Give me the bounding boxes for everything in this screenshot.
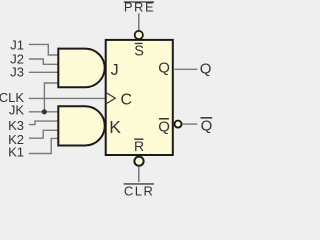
svg-text:R: R [134,138,144,154]
svg-text:JK: JK [9,103,25,118]
svg-text:Q: Q [158,60,170,77]
svg-text:J3: J3 [10,65,24,80]
svg-text:Q: Q [200,60,212,77]
svg-text:K3: K3 [8,118,24,133]
svg-text:K1: K1 [8,144,24,159]
svg-text:Q: Q [158,118,170,135]
svg-text:C: C [121,92,133,109]
svg-text:J: J [111,62,119,79]
svg-text:S: S [134,44,144,60]
svg-text:Q: Q [201,118,213,135]
svg-text:J1: J1 [10,38,24,53]
svg-text:CLR: CLR [124,184,155,196]
svg-text:K: K [109,117,121,137]
